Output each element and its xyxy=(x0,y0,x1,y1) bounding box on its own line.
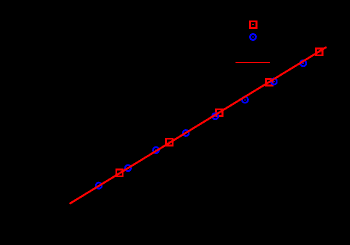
square marker S5 xyxy=(316,49,323,56)
square marker S3 xyxy=(216,109,223,116)
data series 2: blue open circles xyxy=(96,60,306,188)
circle C1 center dot xyxy=(98,185,100,186)
circle marker C8 xyxy=(300,60,306,66)
circle marker C7 xyxy=(271,79,277,85)
square marker S4 xyxy=(266,79,273,86)
legend sample: red square xyxy=(250,21,257,28)
square S5 center dot xyxy=(318,51,320,52)
data series 1: red open squares xyxy=(116,49,322,177)
circle marker C6 xyxy=(242,97,248,103)
square S3 center dot xyxy=(218,112,220,113)
circle marker C4 xyxy=(183,130,189,136)
square S2 center dot xyxy=(168,142,170,143)
circle C7 center dot xyxy=(273,81,275,82)
circle C4 center dot xyxy=(185,133,187,134)
legend red square center dash xyxy=(252,24,254,25)
legend sample: red line segment xyxy=(236,62,270,64)
legend sample: blue circle xyxy=(250,34,256,40)
circle marker C1 xyxy=(96,183,102,189)
circle marker C5 xyxy=(212,113,218,119)
legend blue circle center dash xyxy=(252,37,254,38)
square marker S1 xyxy=(116,170,123,177)
circle marker C2 xyxy=(125,165,131,171)
square S1 center dot xyxy=(118,172,120,173)
square marker S2 xyxy=(166,139,173,146)
circle marker C3 xyxy=(153,147,159,153)
circle C2 center dot xyxy=(127,168,129,169)
fit line (red, drawn on top) xyxy=(70,47,327,204)
circle C3 center dot xyxy=(155,150,157,151)
circle C5 center dot xyxy=(214,116,216,117)
circle C6 center dot xyxy=(244,99,246,100)
square S4 center dot xyxy=(268,82,270,83)
circle C8 center dot xyxy=(302,63,304,64)
